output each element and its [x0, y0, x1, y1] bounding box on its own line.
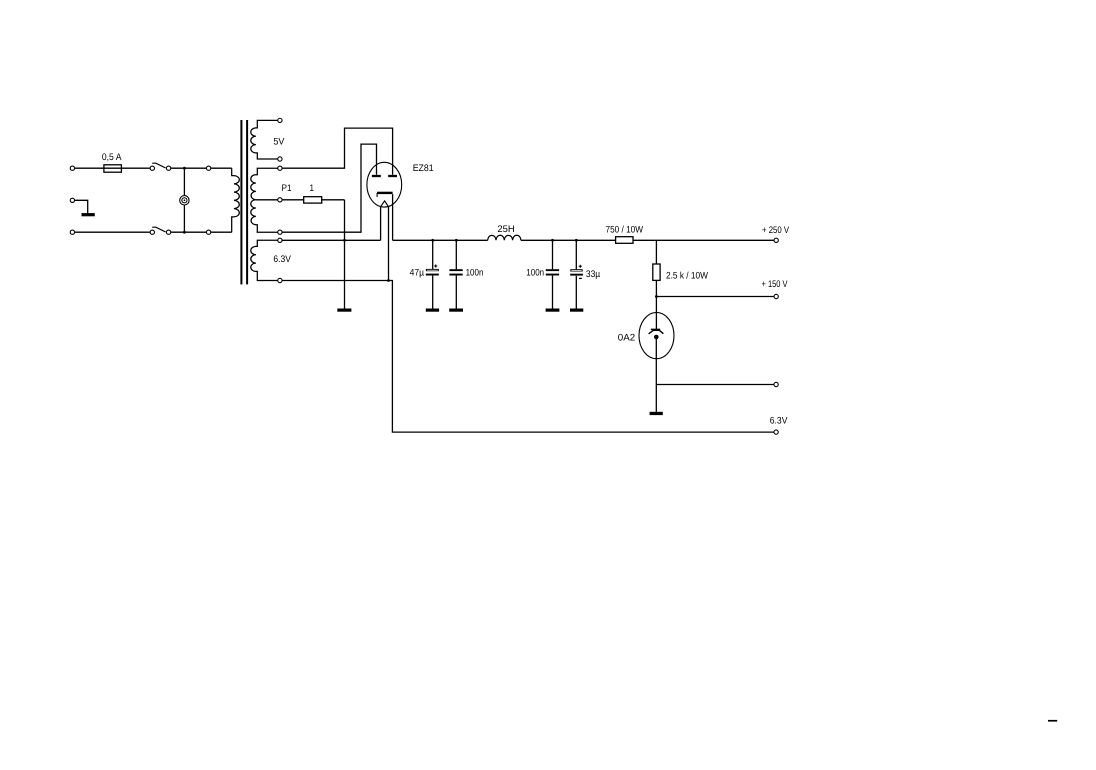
- 0A2 gas dot: [654, 335, 659, 340]
- wire cathode to rail: [392, 194, 394, 240]
- terminal plug earth: [70, 198, 74, 202]
- inductor 25H choke: [488, 235, 521, 240]
- svg-text:1: 1: [310, 183, 315, 194]
- wire after switch bottom: [171, 231, 232, 233]
- capacitor C4 33u plates: [570, 269, 582, 271]
- wire rail after choke: [521, 239, 774, 241]
- wire heater left to rail: [380, 207, 382, 241]
- fuse F1: [104, 165, 122, 172]
- wire HT tap: [256, 199, 278, 201]
- terminal HT bottom: [278, 230, 282, 234]
- capacitor C2 100n leads: [455, 240, 457, 269]
- wire to spare terminal: [656, 384, 773, 386]
- wire mains neutral bottom: [75, 231, 150, 233]
- wire mains live top: [75, 167, 150, 169]
- resistor 750/10W: [616, 237, 633, 244]
- wire HT bottom to rectifier anode 1: [282, 144, 376, 232]
- wire after switch top: [171, 167, 232, 169]
- EZ81 anode plate right: [388, 175, 397, 177]
- connector point top: [206, 166, 210, 170]
- node rail 100n first: [455, 239, 458, 242]
- svg-text:5V: 5V: [273, 136, 285, 147]
- svg-text:0A2: 0A2: [618, 333, 635, 344]
- svg-text:6.3V: 6.3V: [770, 416, 788, 427]
- svg-text:100n: 100n: [466, 268, 484, 279]
- transformer T1 core: [240, 120, 242, 284]
- C1 plus sign: [434, 265, 437, 267]
- ground C2: [449, 309, 463, 312]
- svg-text:EZ81: EZ81: [413, 163, 434, 174]
- 0A2 cathode chevron: [649, 330, 664, 334]
- tube 0A2 envelope: [639, 313, 674, 359]
- svg-text:6.3V: 6.3V: [273, 254, 291, 265]
- wire B+ rail left segment: [282, 239, 380, 241]
- terminal +250V: [774, 238, 778, 242]
- wire 0A2 anode lead: [655, 297, 657, 330]
- connector point bottom: [206, 230, 210, 234]
- wire 0A2 cathode lead: [655, 337, 657, 412]
- wire HT tap through P1: [282, 199, 344, 201]
- svg-text:+ 150 V: + 150 V: [762, 279, 789, 290]
- node rail 47u: [431, 239, 434, 242]
- terminal 5V bottom: [278, 157, 282, 161]
- transformer T1 5V secondary winding: [251, 120, 278, 159]
- EZ81 cathode: [377, 192, 393, 194]
- svg-text:2.5 k / 10W: 2.5 k / 10W: [666, 270, 708, 281]
- capacitor C3 100n leads: [552, 240, 554, 269]
- wire earth: [75, 200, 88, 213]
- wire 6.3V output: [282, 281, 773, 433]
- transformer T1 HT secondary winding: [251, 168, 278, 232]
- terminal plug live: [70, 166, 74, 170]
- svg-text:100n: 100n: [526, 268, 544, 279]
- svg-text:25H: 25H: [497, 224, 514, 235]
- switch S1a lever: [152, 163, 165, 168]
- 0A2 anode bar: [651, 328, 660, 330]
- node junction top: [183, 167, 186, 170]
- ground C4: [570, 309, 583, 312]
- svg-text:47µ: 47µ: [410, 268, 425, 279]
- dash mark bottom right: [1048, 720, 1057, 722]
- ground P1: [337, 309, 351, 312]
- switch S1b contacts: [150, 230, 154, 234]
- switch S1a contacts: [150, 166, 154, 170]
- svg-text:0,5 A: 0,5 A: [102, 152, 122, 163]
- terminal plug neutral: [70, 230, 74, 234]
- wire lamp branch lower: [183, 205, 185, 232]
- terminal +150V: [774, 294, 778, 298]
- wire to +150V terminal: [656, 296, 773, 298]
- wire heater right to 6.3V bottom: [388, 207, 390, 281]
- lamp La1: [180, 196, 189, 205]
- capacitor C1 47u leads: [432, 240, 434, 269]
- node 150V: [655, 295, 658, 298]
- wire HT top to rectifier anode 2: [282, 128, 392, 175]
- transformer T1 primary winding: [232, 168, 240, 232]
- svg-text:33µ: 33µ: [586, 269, 601, 280]
- capacitor C3 100n plates: [546, 269, 559, 271]
- terminal 6.3V top: [278, 238, 282, 242]
- ground 0A2: [650, 412, 663, 415]
- node rail 33u: [575, 239, 578, 242]
- resistor P1: [304, 197, 322, 203]
- capacitor C1 47u plates: [426, 269, 439, 271]
- wire 2.5k branch: [655, 240, 657, 296]
- terminal 5V top: [278, 118, 282, 122]
- node rail 100n second: [551, 239, 554, 242]
- C4 plus sign: [579, 265, 582, 267]
- capacitor C2 100n plates: [449, 269, 462, 271]
- node heater right junction: [387, 279, 390, 282]
- EZ81 heater: [381, 201, 389, 207]
- terminal spare: [774, 382, 778, 386]
- node P1 rail crossing: [343, 239, 346, 242]
- ground earth plug: [82, 213, 95, 216]
- terminal 6.3V bottom: [278, 278, 282, 282]
- node junction bottom: [183, 231, 186, 234]
- wire B+ rail right segment: [393, 239, 488, 241]
- resistor 2.5k/10W: [653, 264, 660, 280]
- svg-text:+ 250 V: + 250 V: [762, 225, 790, 236]
- transformer T1 6.3V secondary winding: [251, 240, 278, 280]
- terminal HT tap: [278, 198, 282, 202]
- C4 minus sign: [579, 277, 582, 279]
- tube EZ81 envelope: [367, 162, 402, 207]
- terminal 6.3V output: [774, 430, 778, 434]
- svg-text:750 / 10W: 750 / 10W: [606, 224, 644, 235]
- ground C3: [546, 309, 560, 312]
- wire lamp branch upper: [183, 168, 185, 195]
- EZ81 anode plate left: [372, 175, 381, 177]
- capacitor C4 33u leads: [575, 240, 577, 269]
- ground C1: [426, 309, 439, 312]
- svg-text:P1: P1: [282, 183, 292, 194]
- wire P1 to ground: [344, 200, 346, 309]
- terminal HT top: [278, 166, 282, 170]
- switch S1b lever: [152, 227, 165, 232]
